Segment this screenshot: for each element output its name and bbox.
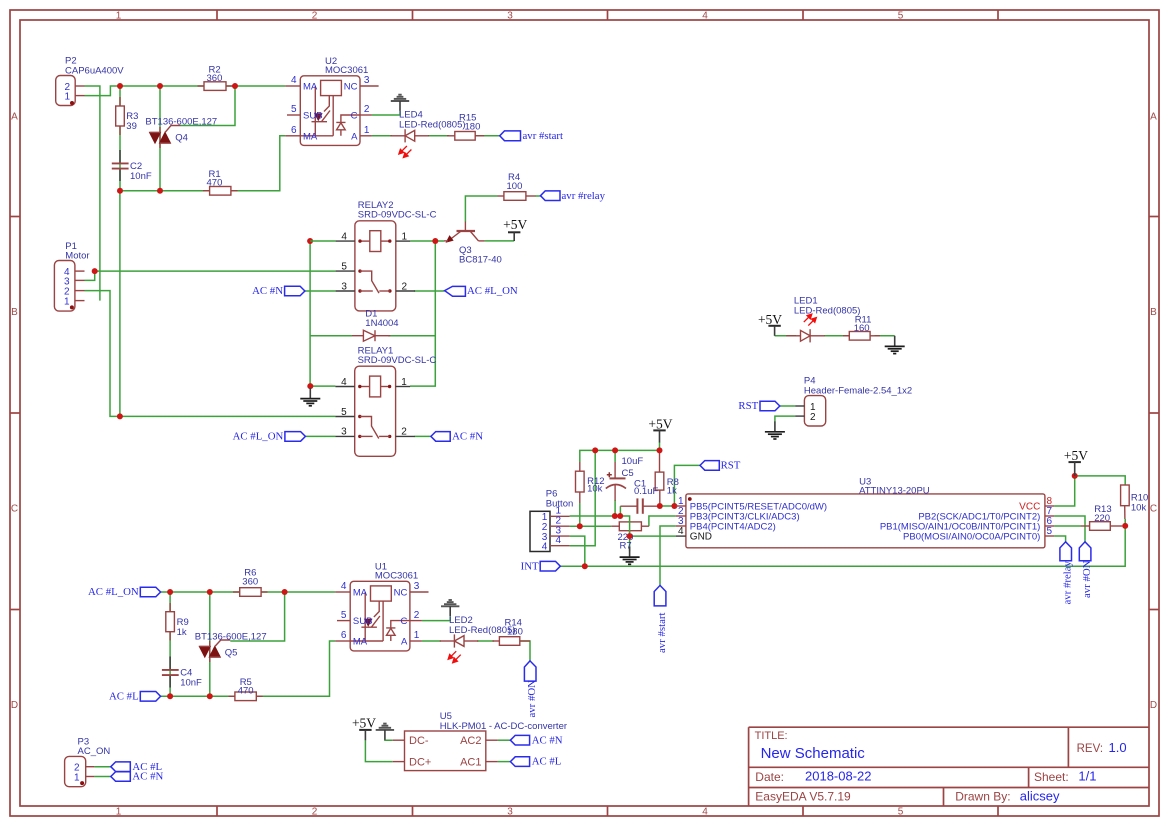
- svg-text:AC #L: AC #L: [109, 690, 139, 702]
- wire P1.4/3 to relay2 pin5: [95, 270, 336, 272]
- svg-text:BT136-600E,127: BT136-600E,127: [195, 632, 267, 643]
- svg-text:EasyEDA V5.7.19: EasyEDA V5.7.19: [755, 789, 851, 803]
- transistor Q3: [444, 222, 502, 266]
- svg-text:MA: MA: [353, 637, 368, 648]
- svg-text:6: 6: [291, 125, 297, 136]
- svg-text:39: 39: [126, 121, 137, 132]
- +5V at Q3: [503, 217, 527, 241]
- netflag RST (P4): [738, 400, 779, 412]
- svg-text:INT: INT: [521, 560, 539, 572]
- wire relay2 pin1 to Q3 junction: [410, 240, 444, 242]
- svg-text:RST: RST: [738, 400, 758, 412]
- +5V above rail: [648, 416, 672, 442]
- svg-text:+5V: +5V: [648, 416, 672, 431]
- svg-text:C5: C5: [622, 468, 634, 479]
- svg-text:1: 1: [116, 807, 122, 818]
- ground at R7: [620, 547, 640, 565]
- ground at P4.2: [765, 421, 785, 439]
- svg-text:AC #N: AC #N: [452, 431, 483, 443]
- svg-text:A: A: [11, 112, 18, 123]
- resistor R12: [576, 462, 605, 503]
- svg-text:AC #L_ON: AC #L_ON: [233, 431, 284, 443]
- svg-text:+5V: +5V: [352, 716, 376, 731]
- junction C5- on GND wire: [612, 513, 618, 519]
- svg-text:1: 1: [414, 630, 420, 641]
- svg-text:AC #N: AC #N: [252, 285, 283, 297]
- netflag AC #L_ON (row start): [88, 586, 161, 598]
- svg-text:10nF: 10nF: [130, 171, 152, 182]
- wire P3.1 to AC#N: [94, 776, 110, 778]
- svg-text:5: 5: [898, 807, 904, 818]
- svg-text:+5V: +5V: [503, 217, 527, 232]
- junction Q5 bottom: [207, 693, 213, 699]
- netflag AC #L (U5): [510, 756, 561, 768]
- wire crossing R7 body: [629, 521, 631, 536]
- svg-text:DC-: DC-: [409, 735, 429, 747]
- netflag avr #start: [500, 130, 563, 142]
- ground at relay1 pin4: [300, 388, 320, 406]
- wire +5V right to VCC and R10: [1054, 476, 1125, 506]
- junction R10 / R13 / INT: [1122, 523, 1128, 529]
- svg-text:AC1: AC1: [460, 756, 481, 768]
- resistor R1: [203, 169, 238, 195]
- wire P1.2 to relay1 pin5: [85, 291, 120, 417]
- svg-text:SRD-09VDC-SL-C: SRD-09VDC-SL-C: [358, 210, 437, 221]
- ground at R11: [885, 336, 905, 354]
- wire relay1 pin4: [310, 385, 335, 387]
- junction C4 bottom: [167, 693, 173, 699]
- triac Q5: [195, 632, 267, 662]
- svg-text:360: 360: [207, 73, 223, 84]
- LED LED4: [390, 110, 465, 158]
- svg-text:+5V: +5V: [758, 312, 782, 327]
- junction relay2.1 / Q3 emitter: [432, 238, 438, 244]
- netflag avr #relay (MCU, vertical): [1060, 542, 1074, 605]
- svg-text:Button: Button: [546, 498, 573, 509]
- resistor R4: [498, 172, 536, 200]
- svg-text:2018-08-22: 2018-08-22: [805, 769, 872, 784]
- svg-text:AC #L: AC #L: [532, 756, 562, 768]
- netflag AC #N (relay2 pin3): [252, 285, 305, 297]
- wire relay1 pin2 to AC#N: [415, 435, 431, 437]
- netflag avr #start (vertical): [654, 585, 668, 653]
- svg-text:avr #start: avr #start: [656, 613, 668, 653]
- wire P6 pin2 row to R7: [570, 525, 612, 527]
- svg-text:VCC: VCC: [1019, 502, 1040, 513]
- svg-text:3: 3: [507, 11, 513, 22]
- svg-text:6: 6: [341, 630, 347, 641]
- svg-text:avr #ON: avr #ON: [1081, 560, 1093, 598]
- earth ground at U5: [376, 724, 394, 740]
- wire U2 pin1 to LED4: [372, 135, 392, 137]
- svg-text:Date:: Date:: [755, 770, 784, 784]
- svg-text:10nF: 10nF: [180, 678, 202, 689]
- junction R8 / C1 / PB5: [657, 503, 663, 509]
- junction relay2.4 / rail: [307, 238, 313, 244]
- wire +5V top rail: [580, 442, 660, 462]
- wire rail down to P6 pin4: [570, 450, 596, 545]
- opto-triac U1: [335, 561, 428, 651]
- wire C5 top lead: [614, 450, 616, 462]
- netflag AC #L_ON (relay1 pin3): [233, 431, 306, 443]
- svg-text:AC #L_ON: AC #L_ON: [88, 586, 139, 598]
- opto-triac U2: [285, 56, 378, 146]
- relay RELAY1: [335, 345, 436, 456]
- svg-text:SUB: SUB: [353, 616, 373, 627]
- wire R12 bottom: [579, 503, 581, 526]
- junction Q5 top: [207, 589, 213, 595]
- wire LED4 to R15: [428, 135, 449, 137]
- LED LED2: [440, 615, 516, 663]
- wire R10 bottom / R13 node: [1124, 519, 1126, 526]
- junction R3 top: [117, 83, 123, 89]
- wire earth to DC-: [385, 739, 393, 742]
- +5V at U5: [352, 716, 376, 741]
- netflag avr #ON (MCU, vertical): [1079, 542, 1093, 598]
- wire U3 pin6 to R13: [1054, 525, 1081, 527]
- resistor R6: [233, 568, 268, 597]
- svg-text:470: 470: [238, 686, 254, 697]
- svg-text:5: 5: [898, 11, 904, 22]
- svg-text:2: 2: [364, 104, 370, 115]
- wire R3 column x=120: [119, 86, 121, 191]
- capacitor C5 (polarized): [606, 456, 644, 501]
- svg-text:2: 2: [810, 412, 816, 423]
- svg-text:CAP6uA400V: CAP6uA400V: [65, 66, 124, 77]
- svg-text:DC+: DC+: [409, 756, 431, 768]
- svg-text:MA: MA: [353, 588, 368, 599]
- wire Q4 gate to R2 output: [181, 86, 236, 126]
- svg-text:avr #relay: avr #relay: [1061, 560, 1073, 604]
- junction C2 bottom: [117, 188, 123, 194]
- connector P2: [56, 56, 125, 106]
- connector P6 (button): [530, 488, 573, 552]
- svg-text:5: 5: [1047, 526, 1053, 537]
- resistor R10: [1121, 485, 1149, 519]
- resistor R7: [611, 522, 649, 552]
- svg-text:B: B: [1150, 307, 1157, 318]
- svg-text:4: 4: [341, 581, 347, 592]
- capacitor C4: [162, 657, 202, 689]
- wire P6 pin3 to INT row: [570, 536, 585, 566]
- svg-text:220: 220: [1094, 513, 1110, 524]
- wire relay2 pin4 rail: [309, 241, 311, 386]
- svg-text:10k: 10k: [1131, 503, 1147, 514]
- svg-text:SUB: SUB: [303, 111, 323, 122]
- svg-text:Q5: Q5: [225, 648, 238, 659]
- junction relay1.5 feed: [117, 413, 123, 419]
- netflag AC #L_ON (relay2 pin2): [445, 285, 518, 297]
- wire R9 column: [169, 592, 171, 696]
- svg-text:C: C: [11, 504, 18, 515]
- svg-text:Drawn By:: Drawn By:: [955, 789, 1010, 803]
- wire +5V to LED1: [775, 335, 796, 337]
- svg-text:alicsey: alicsey: [1020, 788, 1060, 803]
- svg-text:180: 180: [507, 627, 523, 638]
- junction P1.4 / P1.3: [92, 268, 98, 274]
- svg-text:AC #N: AC #N: [132, 771, 163, 783]
- svg-text:A: A: [1150, 112, 1157, 123]
- connector P3: [65, 737, 111, 787]
- svg-text:0.1uF: 0.1uF: [634, 486, 658, 497]
- svg-text:D: D: [1150, 700, 1157, 711]
- svg-text:LED-Red(0805): LED-Red(0805): [399, 120, 466, 131]
- resistor R13: [1081, 504, 1122, 530]
- triac Q4: [145, 116, 217, 148]
- header P4: [795, 376, 912, 426]
- wire Q5 column: [209, 592, 211, 696]
- svg-text:MA: MA: [303, 82, 318, 93]
- svg-text:360: 360: [242, 577, 258, 588]
- junction INT row / P6.3: [582, 563, 588, 569]
- connector P1: [54, 241, 89, 311]
- svg-text:4: 4: [542, 541, 548, 552]
- svg-text:1N4004: 1N4004: [365, 318, 398, 329]
- svg-text:avr #start: avr #start: [523, 130, 563, 142]
- wire AC#L row to U1 pin6: [161, 641, 336, 696]
- junction RST / PB5: [671, 503, 677, 509]
- wire U1 pin1 to LED2: [422, 640, 441, 642]
- junction R12 / P6.2 / R7: [577, 523, 583, 529]
- wire AC2 to flag: [498, 739, 511, 741]
- IC U3 ATTINY13: [676, 476, 1054, 547]
- netflag AC #L (row start): [109, 690, 161, 702]
- wire P2.1 to top rail y=86: [85, 86, 286, 96]
- resistor R3: [116, 97, 139, 135]
- +5V at LED1: [758, 312, 782, 336]
- svg-text:2: 2: [414, 610, 420, 621]
- svg-text:10uF: 10uF: [622, 456, 644, 467]
- wire R11 to ground: [875, 335, 895, 337]
- svg-text:2: 2: [312, 807, 318, 818]
- svg-text:160: 160: [854, 323, 870, 334]
- wire R8 bottom row to U3 pin1: [660, 505, 676, 507]
- netflag RST (MCU): [700, 460, 741, 472]
- svg-text:AC2: AC2: [460, 735, 481, 747]
- junction +5V rail / R8: [657, 447, 663, 453]
- svg-text:Sheet:: Sheet:: [1034, 770, 1069, 784]
- netflag AC #L (P3): [111, 761, 162, 773]
- converter U5: [393, 711, 567, 770]
- junction +5V / VCC / R10: [1072, 473, 1078, 479]
- svg-text:3: 3: [364, 75, 370, 86]
- netflag AC #N (relay1 pin2): [431, 431, 483, 443]
- netflag avr #relay: [541, 190, 606, 202]
- svg-text:TITLE:: TITLE:: [755, 730, 788, 742]
- junction R7 column / GND row: [627, 533, 633, 539]
- svg-text:1: 1: [64, 297, 70, 308]
- svg-text:New Schematic: New Schematic: [761, 745, 866, 762]
- svg-text:GND: GND: [690, 532, 712, 543]
- svg-text:D: D: [11, 700, 18, 711]
- wire GND row to U3 pin4: [630, 535, 676, 537]
- wire Q3 collector to +5V: [485, 240, 515, 242]
- svg-text:A: A: [401, 637, 408, 648]
- wire relay1 pin3 from AC#L_ON: [305, 435, 335, 437]
- wire U3 pin7 to avr#ON flag: [1054, 516, 1085, 542]
- junction Q4 bottom: [157, 188, 163, 194]
- wire LED2 to R14: [477, 640, 494, 642]
- svg-text:PB0(MOSI/AIN0/OC0A/PCINT0): PB0(MOSI/AIN0/OC0A/PCINT0): [903, 532, 1040, 543]
- wire U1 pin2 to ground: [422, 616, 450, 620]
- wire Q5 gate from R6 output: [230, 592, 284, 641]
- wire relay2 pin2 to AC#L_ON flag: [414, 290, 445, 292]
- svg-text:4: 4: [702, 11, 708, 22]
- svg-text:NC: NC: [344, 82, 358, 93]
- svg-text:1.0: 1.0: [1109, 740, 1127, 755]
- wire U3 pin5 to avr#relay flag: [1054, 536, 1066, 542]
- svg-text:RST: RST: [721, 460, 741, 472]
- svg-text:4: 4: [556, 535, 562, 546]
- svg-text:LED-Red(0805): LED-Red(0805): [794, 306, 861, 317]
- svg-text:SRD-09VDC-SL-C: SRD-09VDC-SL-C: [358, 355, 437, 366]
- capacitor C2: [112, 150, 152, 182]
- wire AC1 to flag: [498, 761, 511, 763]
- wire R4 to flag: [535, 195, 541, 197]
- wire R14 to avr#ON flag: [520, 641, 530, 661]
- svg-text:Header-Female-2.54_1x2: Header-Female-2.54_1x2: [804, 386, 912, 397]
- svg-text:AC #L_ON: AC #L_ON: [467, 285, 518, 297]
- svg-text:180: 180: [465, 121, 481, 132]
- svg-text:1: 1: [64, 92, 70, 103]
- svg-text:NC: NC: [394, 588, 408, 599]
- wire P3.2 to AC#L: [94, 766, 110, 768]
- svg-text:1: 1: [116, 11, 122, 22]
- resistor R9: [166, 603, 189, 640]
- wire AC#N to relay2 pin3: [305, 290, 336, 292]
- svg-text:+5V: +5V: [1064, 448, 1088, 463]
- resistor R11: [843, 315, 880, 340]
- junction +5V rail / C5: [612, 447, 618, 453]
- svg-text:REV:: REV:: [1077, 743, 1103, 755]
- svg-text:5: 5: [291, 104, 297, 115]
- svg-text:C: C: [1150, 504, 1157, 515]
- wire +5V to DC+: [365, 740, 392, 762]
- svg-text:C: C: [401, 616, 408, 627]
- wire P6 pin1 row to GND jog: [570, 516, 630, 551]
- svg-text:AC #N: AC #N: [532, 734, 563, 746]
- diode D1: [352, 309, 399, 342]
- wire C1 left corner: [619, 506, 621, 516]
- svg-text:10k: 10k: [587, 484, 603, 495]
- svg-text:MOC3061: MOC3061: [325, 65, 368, 76]
- wire INT row: [560, 526, 1125, 566]
- svg-text:ATTINY13-20PU: ATTINY13-20PU: [859, 485, 930, 496]
- relay RELAY2: [336, 200, 437, 311]
- svg-text:Q4: Q4: [175, 132, 188, 143]
- wire AC#L_ON row to U1 pin4: [161, 591, 336, 593]
- svg-text:1: 1: [364, 125, 370, 136]
- svg-text:BT136-600E,127: BT136-600E,127: [145, 116, 217, 127]
- svg-text:C: C: [351, 111, 358, 122]
- svg-text:4: 4: [678, 526, 684, 537]
- wire P1.3 jog: [85, 271, 95, 280]
- junction relay1.4 / ground: [307, 383, 313, 389]
- svg-text:BC817-40: BC817-40: [459, 254, 502, 265]
- LED LED1: [786, 296, 860, 343]
- +5V right side: [1064, 448, 1088, 476]
- wire Q4 column x=160: [159, 86, 161, 191]
- svg-text:1k: 1k: [667, 485, 677, 496]
- junction R6 output: [282, 589, 288, 595]
- junction R9 top: [167, 589, 173, 595]
- svg-text:avr #ON: avr #ON: [526, 680, 538, 718]
- resistor R5: [229, 677, 263, 701]
- svg-text:HLK-PM01 - AC-DC-converter: HLK-PM01 - AC-DC-converter: [440, 721, 567, 732]
- junction Q4 top: [157, 83, 163, 89]
- earth ground at U1 pin2: [441, 600, 459, 616]
- svg-text:AC_ON: AC_ON: [78, 746, 111, 757]
- resistor R14: [493, 618, 531, 646]
- netflag avr #ON (vertical): [524, 661, 537, 718]
- wire R4 to Q3 base: [465, 196, 497, 222]
- resistor R15: [447, 112, 484, 140]
- earth ground at U2 pin2: [391, 95, 409, 111]
- capacitor C1: [620, 479, 659, 514]
- svg-text:4: 4: [291, 75, 297, 86]
- wire U2 pin2 to ground: [372, 111, 400, 115]
- svg-text:A: A: [351, 131, 358, 142]
- svg-text:5: 5: [341, 610, 347, 621]
- svg-text:Motor: Motor: [65, 251, 89, 262]
- netflag AC #N (U5): [510, 734, 562, 746]
- svg-text:avr #relay: avr #relay: [562, 190, 606, 202]
- junction C1 on GND wire: [617, 513, 623, 519]
- svg-text:470: 470: [207, 178, 223, 189]
- svg-text:1: 1: [74, 772, 80, 783]
- resistor R8: [655, 450, 679, 506]
- svg-text:100: 100: [507, 181, 523, 192]
- wire relay1 pin5 row: [120, 415, 336, 417]
- netflag AC #N (P3): [111, 771, 164, 783]
- resistor R2: [198, 64, 233, 90]
- wire RST to U3 pin1: [674, 465, 700, 506]
- svg-text:MA: MA: [303, 131, 318, 142]
- wire R15 to flag avr#start: [475, 135, 500, 137]
- wire Q3 right rail down to relay1 pin1: [410, 241, 435, 386]
- wire bottom rail to U2 pin6: [120, 136, 285, 191]
- junction R2 output: [232, 83, 238, 89]
- wire LED1 to R11: [824, 335, 849, 337]
- junction +5V rail / P6.4: [592, 447, 598, 453]
- svg-text:3: 3: [414, 581, 420, 592]
- wire C2 rail down to relay1 pin5 row: [119, 191, 121, 417]
- svg-text:3: 3: [507, 807, 513, 818]
- wire U3 pin3 to avr#start flag: [660, 526, 676, 585]
- wire R7 right jog to U3 pin2: [649, 516, 676, 526]
- wire D1 row: [310, 335, 352, 337]
- svg-text:B: B: [11, 307, 18, 318]
- wire P4.2 to ground: [775, 416, 795, 421]
- svg-text:2: 2: [312, 11, 318, 22]
- wire C5 bottom to P6 pin1 row: [614, 500, 616, 516]
- netflag INT: [521, 560, 561, 572]
- wire P2.2 to P1.1 rail: [85, 86, 100, 301]
- svg-text:1k: 1k: [177, 627, 187, 638]
- svg-text:1/1: 1/1: [1078, 769, 1096, 784]
- svg-text:MOC3061: MOC3061: [375, 570, 418, 581]
- svg-text:4: 4: [702, 807, 708, 818]
- wire RST flag to P4.1: [780, 405, 795, 407]
